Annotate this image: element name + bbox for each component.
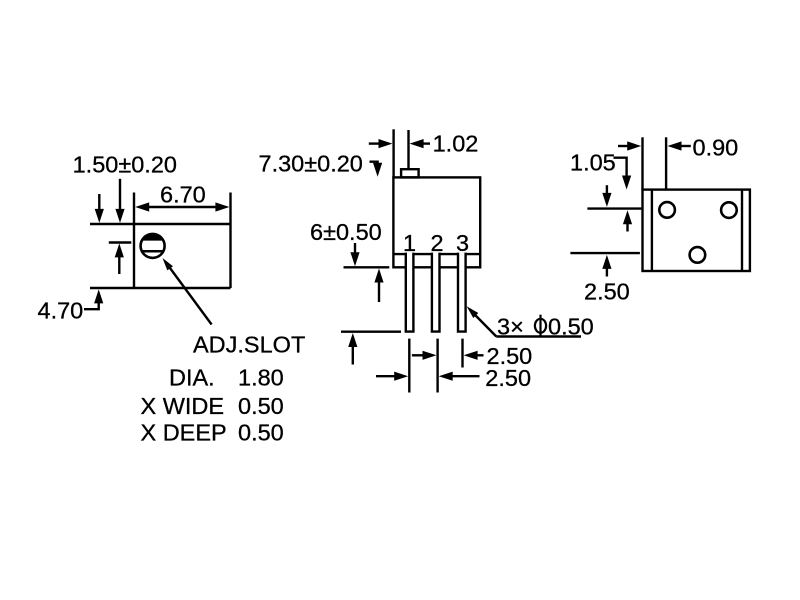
pin 3 body: [458, 253, 466, 332]
up arrow for 1.50 dimension: [115, 243, 124, 257]
right view inner line right: [741, 190, 743, 271]
tick below pin 1: [408, 339, 410, 393]
pin2-pin3 spacing right arrow: [423, 351, 437, 360]
pin2-pin3 spacing left arrow: [464, 351, 478, 360]
left view top edge line: [90, 223, 231, 225]
base bottom extension line: [344, 266, 390, 268]
diameter symbol phi: [535, 319, 546, 333]
pin 2 body: [432, 253, 440, 332]
0.90 right-pointing arrow: [627, 141, 641, 150]
down arrow for 1.50 dimension: [115, 209, 124, 223]
svg-text:2: 2: [430, 230, 443, 256]
left view bottom edge line: [90, 287, 231, 289]
7.30 leader bracket with down arrow: [370, 162, 378, 166]
svg-text:2.50: 2.50: [485, 365, 531, 391]
shaft tab: [401, 169, 419, 177]
svg-text:1.80: 1.80: [238, 365, 284, 391]
middle body outline: [393, 177, 480, 267]
svg-text:X DEEP: X DEEP: [141, 420, 227, 446]
svg-text:3×: 3×: [497, 313, 524, 339]
hole top left: [659, 202, 675, 218]
left view right edge / extension line: [229, 193, 231, 289]
adjust shaft right line: [407, 130, 409, 169]
3x diameter 0.50 leader underline: [496, 335, 581, 337]
svg-text:4.70: 4.70: [38, 298, 84, 324]
slot chord lower: [142, 250, 163, 253]
left view left edge / extension line: [133, 193, 135, 289]
extension line body edge: [641, 137, 643, 189]
svg-text:6.70: 6.70: [160, 182, 206, 208]
svg-text:7.30±0.20: 7.30±0.20: [259, 151, 363, 177]
0.90 left-pointing arrow: [668, 141, 682, 150]
slot top segment fill: [142, 234, 162, 241]
6± down arrow: [350, 252, 359, 266]
base strip top line: [393, 253, 480, 255]
svg-text:3: 3: [456, 230, 469, 256]
4.70 leader bracket with up arrow: [84, 300, 99, 309]
adjustment screw slot circle: [141, 234, 165, 258]
extension line hole center: [665, 137, 667, 188]
svg-text:0.50: 0.50: [238, 393, 284, 419]
svg-text:1.50±0.20: 1.50±0.20: [73, 152, 177, 178]
svg-text:1.02: 1.02: [433, 131, 479, 157]
hole bottom center: [690, 247, 706, 263]
1.05 up arrow: [623, 210, 632, 224]
pin1-pin2 spacing right arrow: [394, 372, 408, 381]
tick below pin 3: [461, 339, 463, 368]
hole row down arrow: [602, 193, 611, 207]
1.02 right-pointing arrow: [379, 139, 393, 148]
svg-text:6±0.50: 6±0.50: [310, 219, 382, 245]
svg-text:ADJ.SLOT: ADJ.SLOT: [193, 332, 305, 358]
svg-text:X WIDE: X WIDE: [141, 393, 225, 419]
pin 1 body: [406, 253, 414, 332]
adjust shaft left line: [392, 129, 394, 177]
pin1-pin2 spacing left arrow: [439, 372, 453, 381]
tick below pin 2: [436, 339, 438, 393]
1.02 left-pointing arrow: [410, 139, 424, 148]
slot level tick line: [109, 241, 132, 243]
1.05 leader bracket with down arrow: [614, 158, 627, 179]
6± up arrow: [348, 333, 357, 347]
svg-text:0.50: 0.50: [548, 313, 594, 339]
svg-text:DIA.: DIA.: [169, 365, 215, 391]
dimension 6.70 double arrow: [140, 206, 224, 208]
svg-text:0.90: 0.90: [693, 134, 739, 160]
pin bottom reference line: [341, 331, 401, 333]
2.50 up arrow: [602, 255, 611, 269]
svg-text:1: 1: [403, 230, 416, 256]
hole top right: [721, 202, 737, 218]
leader arrow to ADJ.SLOT: [169, 266, 212, 325]
right view inner line left: [651, 190, 653, 271]
2.50 level line: [570, 252, 640, 254]
svg-text:1.05: 1.05: [570, 150, 616, 176]
right view body outline: [643, 190, 750, 271]
3x diameter 0.50 leader arrow: [472, 312, 497, 337]
7.30 up arrow: [374, 269, 383, 283]
svg-text:2.50: 2.50: [584, 279, 630, 305]
down arrow outer at 4.70 extension: [95, 209, 104, 223]
svg-text:0.50: 0.50: [238, 420, 284, 446]
hole center level line: [587, 207, 641, 209]
